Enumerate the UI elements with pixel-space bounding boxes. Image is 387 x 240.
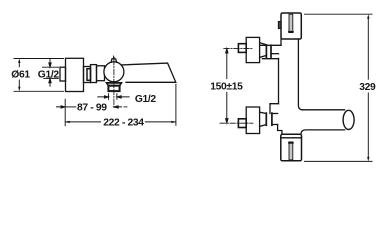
body left edge below bottom inlet: [278, 125, 282, 135]
dim G1/2 wall: arrow above pointing down: [49, 59, 51, 68]
body left edge between inlets: [278, 58, 280, 103]
bottom cap slot top bar: [289, 142, 293, 144]
bottom cap slot: [289, 142, 293, 160]
top inlet trapezoid neck: [260, 43, 267, 58]
dim 150 line upper with arrow up: [226, 49, 228, 80]
bottom inlet nut: [238, 119, 246, 128]
dim 222-234: right arrow: [171, 121, 176, 123]
dim 329 arrow up: [367, 14, 369, 19]
top inlet flange: [246, 37, 259, 62]
dim 222-234: left arrow: [65, 121, 70, 123]
spout bottom line with left curve: [301, 130, 345, 134]
dim O61 dimension line: [18, 62, 20, 87]
shower outlet nut G1/2: [108, 86, 119, 91]
top inlet centerline: [224, 47, 253, 49]
right view dimension graphics: [226, 14, 373, 161]
svg-text:G1/2: G1/2: [38, 70, 60, 81]
bottom inlet trapezoid neck: [260, 112, 267, 126]
svg-text:G1/2: G1/2: [135, 94, 157, 105]
body right edge with curve into spout: [298, 39, 302, 110]
dim G1/2 shower: left arrow: [97, 96, 108, 98]
step shelf below top neck: [263, 58, 279, 60]
top inlet nut: [238, 44, 246, 53]
wall face extension line vertical: [64, 99, 66, 126]
dim 329 extension line bottom: [304, 160, 373, 162]
dim 87-99: right arrow outside: [114, 106, 122, 108]
dim G1/2 shower: right arrow with leader: [117, 96, 130, 98]
top cap left button: [278, 22, 281, 29]
dim G1/2 wall: extension line at stub top: [42, 66, 59, 68]
valve body block: [91, 65, 97, 83]
left view dimension graphics: [14, 59, 176, 127]
dim 87-99: trailing dash-dot: [124, 106, 128, 108]
collar barrel before cartridge housing: [97, 66, 105, 81]
shower stub extension lines: [109, 93, 117, 100]
dim 150 line lower with arrow down: [226, 92, 228, 123]
svg-text:87 - 99: 87 - 99: [77, 103, 107, 114]
dim G1/2 wall: arrow below pointing up: [49, 78, 51, 86]
wall flange escutcheon: [66, 58, 84, 91]
top cap slot bottom bar: [289, 31, 293, 33]
dim 222-234: dimension line: [65, 121, 176, 123]
cartridge housing circle: [104, 62, 124, 82]
dim 87-99: left arrow outside: [56, 106, 65, 108]
svg-text:Ø61: Ø61: [11, 70, 30, 81]
top inlet union nut left bar: [265, 45, 267, 57]
svg-text:222 - 234: 222 - 234: [103, 118, 144, 129]
bottom inlet flange: [246, 107, 259, 134]
spout end ellipse: [343, 110, 354, 129]
bottom inlet centerline: [220, 122, 253, 124]
spout: [122, 63, 176, 82]
dim G1/2 wall: underline extension line: [43, 77, 59, 79]
connector between flange and body: [84, 67, 91, 83]
dim 87-99: stub after left arrow: [65, 106, 76, 108]
shower outlet collar: [107, 83, 122, 86]
bottom cap volume handle: [281, 134, 302, 161]
top inlet neck bottom line: [271, 53, 279, 55]
top cap slot: [289, 14, 293, 32]
spout top line: [303, 109, 345, 111]
bottom cap inner line: [281, 137, 302, 139]
wall inlet stub G1/2: [60, 67, 66, 81]
svg-text:329: 329: [359, 82, 376, 93]
connector inner ring: [87, 69, 91, 81]
bottom inlet union nut left bar: [265, 113, 267, 125]
top inlet union nut right bar: [270, 45, 272, 57]
bottom inlet neck top line: [272, 113, 278, 115]
vertical centerline through cartridge: [113, 60, 115, 109]
bottom inlet neck bottom line: [272, 124, 278, 126]
dim O61 arrow down: [18, 87, 20, 92]
dim 329 arrow down: [367, 157, 369, 162]
dim O61 extension line bottom: [14, 90, 65, 92]
top inlet neck top line: [261, 44, 282, 46]
spout tip extension line vertical: [175, 84, 177, 126]
body upper left edge: [280, 39, 282, 45]
dim O61 extension line top: [14, 58, 65, 60]
step above bottom neck: [270, 104, 279, 114]
dim 329 dimension line: [367, 19, 369, 157]
dim O61 arrow up: [18, 59, 20, 64]
dim 329 extension line top: [304, 13, 373, 15]
handle knob on top: [111, 57, 117, 62]
svg-text:150±15: 150±15: [210, 82, 243, 93]
bottom inlet union nut right bar: [271, 113, 273, 125]
top cap temperature handle: [281, 13, 301, 39]
